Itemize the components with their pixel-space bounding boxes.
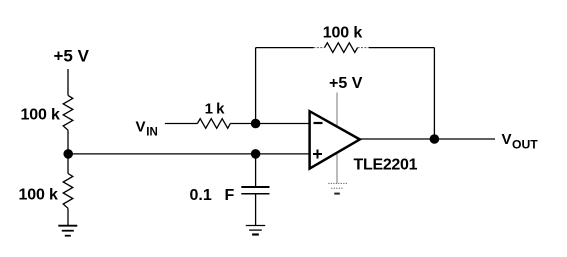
wire VIN to R3 bbox=[165, 123, 198, 125]
resistor R2 100 k bbox=[63, 174, 73, 209]
svg-text:OUT: OUT bbox=[512, 138, 538, 152]
svg-text:100 k: 100 k bbox=[323, 25, 363, 42]
ground (capacitor) bbox=[246, 226, 265, 235]
junction dot inverting input node bbox=[251, 119, 261, 129]
wire +5V to R1 bbox=[67, 69, 69, 95]
capacitor C1 bottom plate bbox=[241, 193, 269, 195]
wire capacitor top bbox=[255, 154, 257, 187]
wire feedback top right bbox=[369, 47, 434, 49]
capacitor C1 top plate bbox=[241, 186, 269, 188]
svg-text:TLE2201: TLE2201 bbox=[354, 157, 418, 174]
wire R1 to node A bbox=[67, 130, 69, 154]
svg-text:0.1: 0.1 bbox=[190, 187, 212, 204]
wire lead R4 right (gray dashed) bbox=[358, 47, 369, 49]
junction dot output node bbox=[430, 134, 440, 144]
wire feedback right vertical bbox=[433, 48, 435, 139]
ground (left) bbox=[58, 226, 77, 236]
wire non-inverting input bbox=[68, 153, 310, 155]
wire R2 to ground bbox=[67, 208, 69, 225]
svg-text:+5 V: +5 V bbox=[329, 75, 363, 92]
plus input symbol bbox=[313, 153, 322, 155]
svg-text:100 k: 100 k bbox=[21, 106, 61, 123]
supply wire op-amp (gray) bbox=[336, 93, 338, 184]
wire capacitor to ground bbox=[255, 194, 257, 226]
svg-text:+5 V: +5 V bbox=[54, 47, 90, 66]
svg-text:F: F bbox=[225, 187, 235, 204]
svg-text:IN: IN bbox=[146, 127, 158, 139]
svg-text:V: V bbox=[502, 131, 512, 148]
svg-text:V: V bbox=[136, 119, 146, 136]
wire feedback left vertical bbox=[255, 48, 257, 124]
wire R3 to inverting input bbox=[230, 123, 310, 125]
resistor R4 100 k (feedback) bbox=[325, 43, 358, 53]
junction dot capacitor node bbox=[251, 149, 261, 159]
minus input symbol bbox=[314, 122, 323, 124]
resistor R1 100 k bbox=[63, 95, 73, 130]
op-amp U1 triangle bbox=[310, 111, 360, 168]
wire output bbox=[360, 138, 495, 140]
wire node A to R2 bbox=[67, 154, 69, 174]
node A junction dot bbox=[63, 149, 73, 159]
ground (op-amp) bbox=[328, 183, 348, 193]
svg-text:1 k: 1 k bbox=[205, 101, 226, 118]
wire feedback top left bbox=[256, 47, 314, 49]
wire lead R4 left (gray dashed) bbox=[314, 47, 325, 49]
resistor R3 1 k bbox=[197, 119, 230, 129]
svg-text:100 k: 100 k bbox=[19, 187, 59, 204]
